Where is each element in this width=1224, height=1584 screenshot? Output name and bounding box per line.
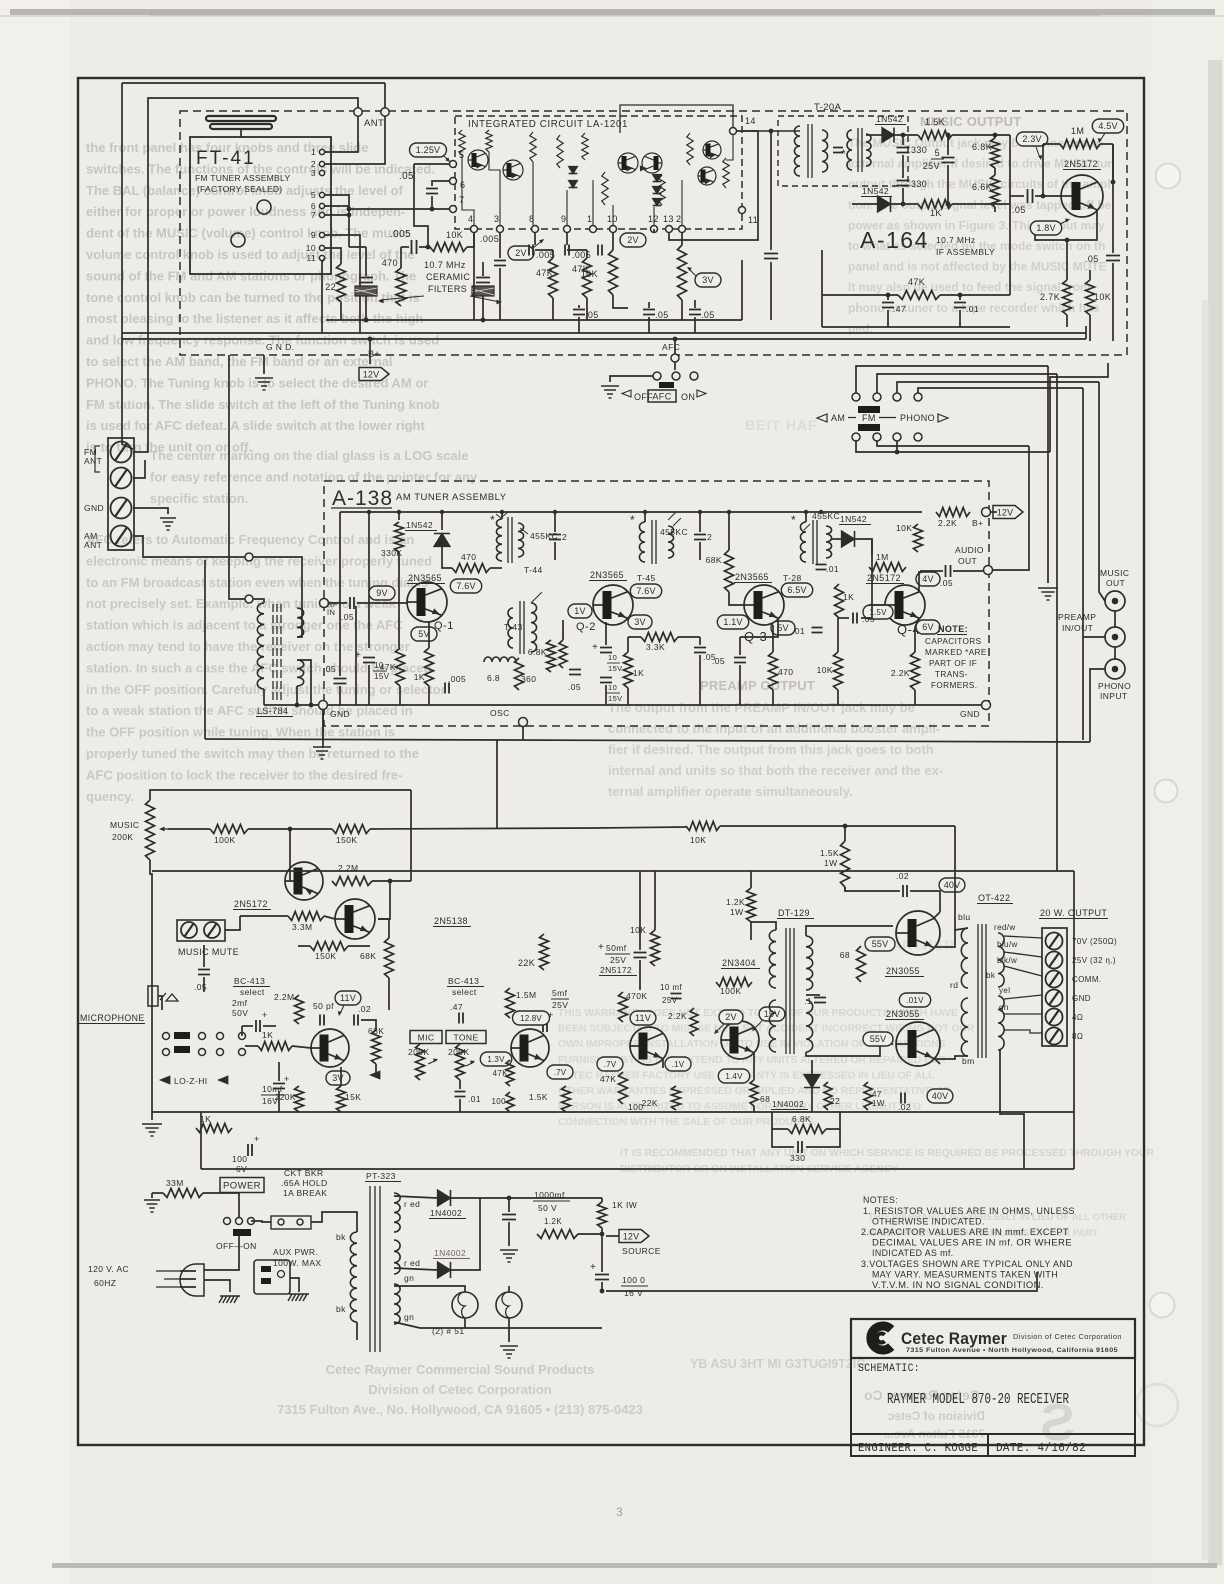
diode 1N542 det: [842, 531, 855, 547]
svg-text:25V: 25V: [923, 161, 940, 171]
svg-text:6.8K: 6.8K: [972, 142, 992, 152]
svg-text:1N542: 1N542: [862, 186, 889, 196]
pot top feedback line: [150, 790, 411, 800]
transistor 2N3055 upper: [896, 911, 940, 955]
resistor 10K stage2: [651, 930, 660, 966]
svg-text:fier if desired. The outpu: fier if desired. The output from this ja…: [608, 742, 934, 757]
svg-text:INDICATED AS mf.: INDICATED AS mf.: [872, 1248, 954, 1258]
svg-text:AUX PWR.: AUX PWR.: [273, 1247, 318, 1257]
node ANT terminal 1: [354, 108, 362, 116]
svg-text:A-138: A-138: [332, 487, 393, 510]
wire left vertical from box to FM ANT: [122, 83, 133, 449]
GND terminal loop: [319, 701, 328, 710]
B+ terminal: [982, 508, 991, 517]
OT-422 primary upper: [961, 928, 968, 988]
svg-text:FILTERS: FILTERS: [428, 284, 467, 294]
svg-text:G N D.: G N D.: [266, 342, 294, 352]
svg-text:.05: .05: [341, 612, 354, 622]
resistor 22 vertical: [337, 264, 346, 302]
wire IF bottom: [822, 326, 1010, 328]
T-20A secondary winding: [822, 130, 828, 172]
voltage 55V lower: [863, 1032, 893, 1046]
resistor 47K pin8: [549, 258, 558, 298]
AM inner box bottom: [340, 704, 986, 706]
svg-text:25V: 25V: [662, 996, 678, 1005]
voltage callout 2V pin3: [508, 246, 534, 260]
svg-text:1K: 1K: [633, 668, 644, 678]
svg-text:COMM.: COMM.: [1072, 975, 1102, 984]
resistor 2.2M v: [295, 995, 304, 1024]
svg-text:CERAMIC: CERAMIC: [426, 272, 470, 282]
svg-text:.47: .47: [450, 1002, 463, 1012]
resistor 47K q9: [662, 1059, 664, 1068]
svg-text:PERSON IS AUTHORIZED TO AS: PERSON IS AUTHORIZED TO ASSUME FOR US AN…: [558, 1102, 921, 1113]
svg-text:1.3V: 1.3V: [487, 1055, 505, 1064]
svg-text:68K: 68K: [360, 951, 376, 961]
resistor 6.8K lower: [991, 175, 1000, 207]
ceramic filter 1: [349, 246, 366, 248]
circuit breaker box: [271, 1216, 311, 1229]
svg-text:OTHERWISE INDICATED.: OTHERWISE INDICATED.: [872, 1217, 985, 1227]
svg-text:CAPACITORS: CAPACITORS: [925, 637, 982, 646]
capacitor .01 q3 a: [816, 565, 827, 570]
resistor 1M IF: [1060, 140, 1100, 149]
svg-text:5V: 5V: [777, 623, 788, 633]
svg-text:bk: bk: [336, 1304, 346, 1314]
T-44 transformer: [496, 519, 502, 561]
label LO-Z-HI: [160, 1076, 170, 1084]
capacitor at 14 node: [764, 254, 778, 259]
voltage callout 2.3V: [1016, 132, 1047, 146]
PT-323 primary winding: [350, 1232, 357, 1322]
bus line A: [122, 332, 1086, 334]
svg-text:ON: ON: [681, 392, 695, 402]
capacitor .005 pin9 h: [565, 245, 569, 256]
svg-text:10K: 10K: [896, 523, 912, 533]
audio routing wire: [993, 446, 1029, 570]
svg-text:7: 7: [311, 210, 316, 220]
voltage 12.8V: [513, 1011, 550, 1025]
svg-text:68K: 68K: [706, 555, 722, 565]
svg-text:10K: 10K: [817, 665, 833, 675]
svg-text:MUSIC MUTE: MUSIC MUTE: [178, 947, 239, 957]
svg-text:LO-Z-HI: LO-Z-HI: [174, 1076, 208, 1086]
svg-text:1V: 1V: [574, 606, 585, 616]
pilot lamp 2: [496, 1292, 522, 1318]
voltage 11V stage2: [630, 1011, 656, 1025]
voltage 7.6V q2: [630, 584, 661, 598]
capacitor .05 left rail: [334, 679, 347, 684]
svg-text:DATE: 4/16/82: DATE: 4/16/82: [996, 1441, 1086, 1455]
svg-text:9: 9: [311, 230, 316, 240]
feedback line down to Q6: [410, 790, 412, 881]
wire ANT2 up to rail: [384, 83, 386, 108]
svg-text:10K: 10K: [581, 269, 598, 279]
resistor 47K pin9: [583, 258, 592, 298]
wire GND to chassis: [133, 508, 168, 514]
ground symbol right column: [1038, 588, 1058, 600]
diode 1N4002 ps lower: [438, 1262, 451, 1278]
diode 1N542 am: [434, 534, 450, 547]
svg-text:455KC: 455KC: [812, 511, 840, 521]
svg-text:6: 6: [460, 180, 465, 190]
svg-text:.005: .005: [448, 674, 466, 684]
svg-text:T-44: T-44: [524, 565, 543, 575]
svg-text:2: 2: [707, 532, 712, 542]
svg-text:in the OFF position. Caref: in the OFF position. Carefully adjust th…: [86, 682, 446, 697]
jack PREAMP: [1105, 627, 1125, 647]
capacitor .05 q2: [569, 670, 581, 675]
resistor 22K q9: [672, 1086, 681, 1110]
svg-text:1N4002: 1N4002: [772, 1099, 804, 1109]
IC internal diodes: [569, 167, 578, 174]
wire IF audio to selector: [1050, 363, 1108, 452]
voltage 1.3V: [480, 1052, 511, 1066]
svg-text:4V: 4V: [922, 574, 933, 584]
svg-text:.05: .05: [1085, 254, 1099, 264]
svg-text:.47: .47: [893, 304, 906, 314]
capacitor 330 upper: [897, 148, 910, 153]
svg-text:100K: 100K: [720, 986, 741, 996]
voltage callout 2V pin10: [620, 233, 646, 247]
capacitor 1000mf 50V: [508, 1198, 510, 1212]
rail junction dots: [367, 510, 371, 514]
svg-text:PREAMP: PREAMP: [1058, 612, 1096, 622]
wire FM ANT 2 stub: [133, 460, 145, 478]
MIC level pot: [410, 1031, 442, 1044]
svg-text:SCHEMATIC:: SCHEMATIC:: [858, 1363, 920, 1375]
svg-text:OUT: OUT: [1106, 578, 1125, 588]
svg-text:bm: bm: [962, 1056, 975, 1066]
second IF transformer winding pair: [847, 130, 852, 170]
LS-784 core: [273, 604, 281, 700]
svg-text:GND: GND: [84, 503, 104, 513]
svg-text:1M: 1M: [876, 552, 889, 562]
svg-text:470: 470: [382, 258, 398, 268]
svg-text:4.5V: 4.5V: [1098, 121, 1117, 131]
capacitor 5/25V: [942, 158, 955, 163]
IC internal transistor a: [468, 150, 488, 170]
OSC terminal drop: [522, 726, 524, 740]
svg-text:1N542: 1N542: [876, 114, 903, 124]
resistor 47K AFC: [898, 291, 940, 300]
resistor 150K top: [332, 825, 370, 834]
svg-text:(FACTORY SEALED): (FACTORY SEALED): [197, 184, 282, 194]
svg-text:33M: 33M: [166, 1178, 184, 1188]
svg-text:1.2K: 1.2K: [544, 1217, 562, 1226]
svg-text:7.6V: 7.6V: [636, 586, 655, 596]
transistor Q7: [311, 1029, 349, 1067]
svg-text:1K: 1K: [262, 1030, 273, 1040]
left rail down: [150, 860, 152, 1112]
svg-text:330: 330: [911, 145, 927, 155]
resistor pin12 vertical: [678, 245, 687, 300]
bus y1169: [201, 1168, 1074, 1170]
IC LA-1201 dashed box: [455, 116, 742, 229]
svg-text:1A BREAK: 1A BREAK: [283, 1188, 327, 1198]
speaker terminal strip: [1042, 928, 1067, 1046]
capacitor 330 lower: [897, 181, 910, 186]
osc coil horizontal: [484, 657, 516, 662]
svg-text:dent of the MUSIC (volume): dent of the MUSIC (volume) control knob.…: [86, 226, 410, 241]
voltage 7.6V: [450, 579, 481, 593]
svg-text:OSC: OSC: [490, 708, 510, 718]
node ANT terminal 2: [381, 108, 389, 116]
IC internal resistors: [459, 130, 465, 155]
svg-text:3.3M: 3.3M: [292, 922, 313, 932]
svg-text:1W: 1W: [824, 858, 838, 868]
voltage callout 1.25V: [410, 143, 447, 157]
top edge scan smudge: [10, 9, 1215, 15]
svg-text:gn: gn: [999, 1003, 1009, 1012]
svg-text:1N4002: 1N4002: [434, 1248, 466, 1258]
svg-text:1N4002: 1N4002: [430, 1208, 462, 1218]
resistor 2.2K B+: [936, 508, 970, 517]
svg-text:3: 3: [616, 1505, 623, 1519]
svg-text:.01V: .01V: [906, 996, 924, 1005]
svg-text:*: *: [490, 513, 495, 527]
wire B+ to 12V: [369, 339, 371, 364]
resistor 360: [515, 658, 524, 690]
wire FT41 pin10: [325, 248, 341, 264]
svg-text:360: 360: [521, 674, 536, 684]
svg-text:specific station.: specific station.: [150, 491, 248, 506]
svg-text:100 0: 100 0: [622, 1275, 645, 1285]
svg-text:connected to the input of: connected to the input of an additional …: [608, 721, 940, 736]
resistor 3.3M: [288, 912, 324, 921]
capacitor .05 a: [573, 310, 585, 315]
capacitor .005 am: [445, 683, 449, 694]
svg-text:5: 5: [459, 150, 464, 160]
svg-text:red/w: red/w: [994, 923, 1016, 932]
svg-text:12V: 12V: [623, 1231, 640, 1241]
wire IF right vertical: [1009, 135, 1011, 204]
svg-text:.005: .005: [572, 250, 591, 260]
svg-text:10: 10: [608, 653, 617, 662]
svg-text:15V: 15V: [608, 694, 623, 703]
resistor 100K: [210, 825, 248, 834]
ground 33M: [144, 1200, 160, 1212]
svg-text:1.25V: 1.25V: [416, 145, 441, 155]
svg-text:FORMERS.: FORMERS.: [931, 681, 977, 690]
svg-text:4Ω: 4Ω: [1072, 1013, 1083, 1022]
svg-text:1K: 1K: [930, 208, 942, 218]
svg-text:internal and units so that: internal and units so that both the rece…: [608, 763, 943, 778]
svg-text:6.5V: 6.5V: [787, 585, 806, 595]
svg-text:1: 1: [311, 147, 316, 157]
svg-text:1.1V: 1.1V: [723, 617, 742, 627]
capacitor .05 q2 right: [694, 648, 706, 653]
wire phono long down: [1090, 669, 1105, 742]
svg-text:50mf: 50mf: [606, 943, 627, 953]
long line y871: [152, 870, 1074, 872]
svg-text:GND: GND: [330, 709, 350, 719]
wire loop terminal 1 to coil tap: [253, 557, 302, 637]
svg-text:and low frequency response.: and low frequency response. The function…: [86, 333, 439, 348]
voltage 5V q3: [771, 621, 795, 635]
resistor 33M: [163, 1189, 203, 1198]
voltage 1.1V q3: [717, 615, 748, 629]
svg-text:INPUT: INPUT: [1100, 691, 1128, 701]
resistor 1K q2: [624, 652, 633, 688]
voltage 15V q10: [759, 1007, 785, 1021]
OT-422 secondary upper: [998, 933, 1004, 987]
svg-text:YB ASU 3HT MI G3TUGI9T2IG: YB ASU 3HT MI G3TUGI9T2IG: [690, 1357, 866, 1371]
svg-text:OUT: OUT: [958, 556, 977, 566]
wire lamp row to right: [509, 1327, 602, 1329]
resistor 470 am: [452, 564, 490, 573]
transformer top stubs: [501, 512, 503, 519]
svg-text:+: +: [262, 1010, 268, 1020]
resistor 220K a: [295, 1086, 304, 1112]
svg-text:Q-2: Q-2: [576, 621, 596, 633]
svg-text:.01: .01: [792, 626, 805, 636]
svg-text:15V: 15V: [374, 672, 390, 681]
capacitor .05 q3 left: [734, 658, 746, 663]
svg-text:FM: FM: [862, 413, 876, 423]
svg-text:T-45: T-45: [637, 573, 656, 583]
screw terminal FM ANT: [111, 442, 132, 463]
svg-text:1.8V: 1.8V: [1036, 223, 1055, 233]
svg-text:.05: .05: [655, 310, 669, 320]
resistor 10K q4: [834, 652, 843, 690]
FT-41 tuner box: [190, 137, 331, 274]
IC pin 14 terminal: [730, 128, 737, 135]
svg-text:1W.: 1W.: [872, 1099, 887, 1108]
T-20A cap star: [833, 148, 843, 153]
voltage 1V q2: [568, 604, 592, 618]
PT-323 secondary red upper: [394, 1193, 400, 1232]
svg-text:PART OF IF: PART OF IF: [929, 659, 977, 668]
svg-text:6.8K: 6.8K: [792, 1114, 811, 1124]
resistor 15K: [337, 1086, 346, 1112]
svg-text:blu: blu: [958, 912, 971, 922]
resistor 10K amp top: [686, 822, 720, 831]
svg-text:2.2M: 2.2M: [274, 992, 295, 1002]
svg-text:Division of Cetec Corporation: Division of Cetec Corporation: [1013, 1334, 1122, 1341]
svg-text:2N3404: 2N3404: [722, 958, 756, 968]
svg-text:47K: 47K: [600, 1074, 616, 1084]
svg-text:.1: .1: [804, 996, 812, 1006]
svg-text:.65A HOLD: .65A HOLD: [281, 1178, 328, 1188]
resistor 68K q7: [372, 1030, 381, 1064]
transistor Q6: [335, 899, 375, 939]
svg-text:1M: 1M: [1071, 126, 1084, 136]
ground on bus: [322, 709, 324, 740]
wire FT41 pin2 right: [325, 116, 385, 164]
svg-text:the OFF position while tun: the OFF position while tuning. When the …: [86, 725, 395, 740]
capacitor .05 q4 base: [853, 613, 857, 624]
svg-text:50 pf: 50 pf: [313, 1001, 334, 1011]
svg-text:2: 2: [676, 214, 681, 224]
wires lamps: [394, 1286, 465, 1292]
svg-text:FM station. The slide swit: FM station. The slide switch at the left…: [86, 397, 440, 412]
svg-text:PT-323: PT-323: [366, 1171, 396, 1181]
svg-text:T-20A: T-20A: [814, 102, 842, 113]
capacitor .005 pin3: [494, 261, 506, 266]
svg-text:11V: 11V: [635, 1013, 651, 1023]
T-20A primary winding: [794, 126, 800, 176]
svg-text:V.T.V.M. IN NO SIGNAL COND: V.T.V.M. IN NO SIGNAL CONDITION.: [872, 1280, 1044, 1290]
svg-text:3.3K: 3.3K: [646, 642, 665, 652]
wire y1291: [606, 1272, 1037, 1291]
vertical wire to ground right: [1047, 366, 1049, 583]
svg-text:OT-422: OT-422: [978, 893, 1010, 903]
wire verticals from AM rail: [368, 512, 370, 648]
svg-text:FM TUNER ASSEMBLY: FM TUNER ASSEMBLY: [195, 173, 290, 183]
svg-text:MARKED *ARE: MARKED *ARE: [925, 648, 987, 657]
capacitor .05 audio out: [946, 565, 951, 577]
svg-text:12.8V: 12.8V: [520, 1014, 542, 1023]
wire FT41 pin1 to ANT: [325, 116, 358, 152]
DT-129 wires: [751, 922, 776, 930]
capacitor 100 16V ps: [601, 1236, 603, 1272]
svg-text:2N3565: 2N3565: [590, 570, 624, 580]
svg-text:quency.: quency.: [86, 789, 134, 804]
svg-text:to select the AM band, th: to select the AM band, the FM band or an…: [86, 354, 393, 369]
svg-text:PREAMP OUTPUT: PREAMP OUTPUT: [700, 678, 815, 693]
capacitor .1 driver: [814, 998, 826, 1003]
svg-text:CKT BKR: CKT BKR: [284, 1168, 324, 1178]
FT-41 pins 1-11: [319, 149, 324, 154]
resistor 1K 1W ps: [598, 1202, 607, 1228]
svg-text:2N5172: 2N5172: [600, 965, 632, 975]
chassis ground plug: [219, 1296, 240, 1303]
svg-text:50V: 50V: [232, 1008, 248, 1018]
svg-text:10K: 10K: [630, 925, 646, 935]
wire FT41 pin9: [325, 235, 360, 333]
audio out terminal: [984, 566, 993, 575]
svg-text:FT-41: FT-41: [196, 148, 256, 169]
voltage 5V: [411, 627, 437, 641]
wires IC pins to bus: [473, 233, 475, 320]
AFC switch slider bar: [659, 382, 674, 388]
svg-text:.05: .05: [323, 664, 336, 674]
resistor 150K fb: [310, 942, 348, 951]
svg-text:68: 68: [760, 1094, 770, 1104]
svg-text:4: 4: [468, 214, 473, 224]
OT-422 secondary lower: [998, 996, 1004, 1050]
svg-text:150K: 150K: [315, 951, 336, 961]
wires 3055: [934, 912, 940, 918]
svg-text:INTEGRATED CIRCUIT LA-1201: INTEGRATED CIRCUIT LA-1201: [468, 119, 628, 130]
voltage 55V upper: [865, 937, 895, 951]
svg-text:120 V. AC: 120 V. AC: [88, 1264, 129, 1274]
resistor 47K q8: [506, 1060, 514, 1086]
svg-text:3: 3: [311, 168, 316, 178]
svg-text:CONNECTION WITH THE SALE O: CONNECTION WITH THE SALE OF OUR PRODUCTS…: [558, 1117, 817, 1128]
title block logo band: [851, 1319, 1135, 1358]
svg-text:*: *: [841, 147, 846, 161]
svg-text:.01: .01: [468, 1094, 481, 1104]
svg-text:3V: 3V: [332, 1073, 343, 1083]
svg-text:AFC position to lock the: AFC position to lock the receiver to the…: [86, 767, 402, 782]
svg-text:blk/w: blk/w: [997, 956, 1017, 965]
capacitor 2 am: [549, 535, 561, 540]
electrolytic 100 6V: [248, 1144, 252, 1156]
IC internal transistor pair c: [618, 153, 638, 173]
svg-text:3: 3: [494, 214, 499, 224]
wires selector to right column: [856, 366, 1048, 393]
transistor Q8: [511, 1029, 549, 1067]
IC internal transistor f: [698, 167, 716, 185]
screw terminal GND: [111, 498, 132, 519]
resistor 100 q8: [506, 1092, 514, 1112]
bottom grey scan line: [52, 1563, 1217, 1568]
wire GND drop: [263, 355, 265, 374]
wire breaker to transformer: [311, 1212, 330, 1222]
resistor 1K lower: [918, 200, 952, 209]
